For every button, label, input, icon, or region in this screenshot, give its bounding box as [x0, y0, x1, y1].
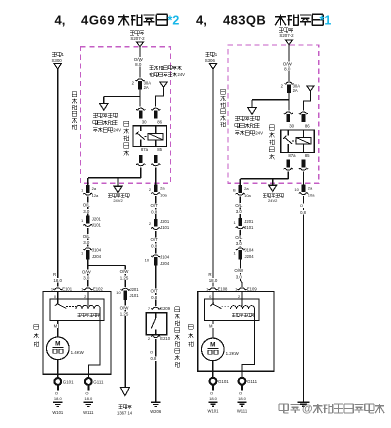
svg-text:M: M [55, 341, 60, 348]
svg-text:J204: J204 [245, 254, 255, 259]
connector E102 into starter [85, 288, 91, 290]
svg-text:85: 85 [157, 147, 162, 152]
svg-text:86: 86 [305, 123, 310, 128]
svg-text:1.25: 1.25 [120, 275, 129, 280]
svg-text:3.0: 3.0 [83, 209, 90, 214]
coil return wire inside box right [242, 309, 255, 377]
stub battery splice right [272, 179, 274, 185]
svg-text:0.8: 0.8 [151, 244, 158, 249]
watermark toutiao [279, 403, 288, 413]
svg-text:0.8: 0.8 [300, 210, 306, 215]
solenoid coils left [76, 305, 100, 309]
connector triangle to starter 14 [120, 388, 129, 396]
connector pin below junction right-col [154, 185, 158, 193]
connector E210 below switch [153, 335, 159, 337]
svg-text:8.0: 8.0 [284, 67, 291, 72]
wire splice to relay pin86 right [303, 91, 310, 111]
svg-text:J104: J104 [160, 254, 170, 259]
svg-text:10a: 10a [308, 193, 315, 198]
svg-text:10a: 10a [160, 193, 167, 198]
pin M label and wire to motor right [212, 320, 214, 338]
svg-text:*2: *2 [168, 13, 180, 27]
splice note text 3 lines (right) [235, 116, 239, 121]
J-column label O/W 1.25 [119, 269, 129, 274]
relay coil left [148, 133, 163, 140]
solder point label left S300 [52, 52, 56, 56]
starter motor circle right [202, 338, 225, 361]
svg-text:O: O [210, 390, 213, 395]
svg-text:O/T: O/T [151, 289, 159, 294]
pin M label and wire to motor [57, 320, 59, 337]
svg-text:J101: J101 [160, 225, 170, 230]
svg-text:S306: S306 [205, 58, 216, 63]
cable label R 18.0 [52, 272, 57, 277]
splice note text 3 lines (left) [93, 113, 97, 118]
svg-text:E210: E210 [160, 336, 170, 341]
solenoid coils right [231, 306, 255, 310]
terminal G111 right diagram [239, 378, 246, 385]
splice triangle multi-strand right [248, 108, 257, 115]
svg-text:W101: W101 [52, 410, 64, 415]
svg-text:G111: G111 [93, 379, 104, 384]
left drop wire from junction [87, 178, 89, 185]
wire to starter right [240, 260, 242, 287]
connector E109 into starter right [239, 288, 245, 290]
svg-text:J104: J104 [92, 247, 102, 252]
wire battery to fuse right [288, 45, 290, 81]
svg-text:O/T: O/T [151, 237, 159, 242]
ground W206 [151, 401, 160, 403]
motor to terminal wire [57, 360, 59, 379]
svg-text:S207-2: S207-2 [130, 36, 145, 41]
branch junction to J-column [88, 265, 126, 267]
svg-text:J101: J101 [92, 223, 102, 228]
svg-text:B: B [233, 187, 236, 192]
wire label O/L 3.0 lower [87, 228, 89, 247]
stub to battery splice triangle [117, 178, 119, 186]
svg-text:0.8: 0.8 [150, 356, 156, 361]
svg-text:4,: 4, [196, 12, 207, 27]
ground W101 right [208, 401, 217, 403]
svg-text:24V2: 24V2 [268, 198, 278, 203]
svg-text:18.0: 18.0 [54, 396, 63, 401]
ground stub right G101 [212, 385, 214, 391]
svg-text:18.0: 18.0 [209, 278, 218, 283]
svg-text:2a: 2a [308, 185, 313, 190]
svg-text:*1: *1 [320, 13, 332, 27]
ground W111 right [237, 401, 246, 403]
starter relay box right [281, 130, 315, 152]
battery positive note right [263, 194, 267, 198]
svg-text:M: M [209, 324, 213, 329]
svg-text:O: O [85, 391, 88, 396]
svg-text:O/L: O/L [235, 203, 243, 208]
solenoid box left [50, 299, 104, 321]
svg-text:3.0: 3.0 [236, 241, 243, 246]
right harness vertical label [221, 89, 226, 94]
wire and labels O 0.8 [302, 196, 304, 402]
inline connector J104/J204 right drop [237, 248, 243, 250]
svg-text:30: 30 [289, 123, 294, 128]
svg-text:R: R [208, 272, 211, 277]
connector triangle battery cable left [54, 63, 61, 69]
svg-text:O/W: O/W [82, 269, 92, 274]
wire splice to relay pin86 [156, 87, 164, 107]
svg-text:30: 30 [142, 119, 147, 124]
junction bus left [88, 177, 141, 179]
relay connector bottom-left [139, 155, 143, 163]
fuse EF connector right (30A) [286, 82, 292, 84]
wire label O/W 8.0 [133, 57, 143, 62]
ground bottom right [297, 401, 309, 403]
svg-text:@: @ [302, 403, 313, 415]
wire to starter pin2 and branch [87, 260, 89, 287]
svg-text:24V: 24V [113, 128, 121, 133]
svg-text:W101: W101 [208, 409, 220, 414]
coil tiny caption [78, 313, 81, 316]
svg-text:G111: G111 [247, 379, 258, 384]
switch column wire from relay85 [155, 167, 157, 184]
wire label O/L 3.0 lower right [239, 230, 241, 246]
connector E209 start switch [153, 307, 159, 309]
cable label R 18.0 right [207, 272, 212, 277]
wire label O/L 3.0 upper right [239, 197, 241, 218]
wire label O/T 0.8 2nd [155, 231, 157, 254]
svg-text:4,: 4, [55, 12, 66, 27]
wire label O/L 3.0 upper [87, 197, 89, 216]
svg-text:G101: G101 [63, 379, 74, 384]
wire switch to ground [155, 339, 157, 402]
wire to start switch [155, 265, 157, 306]
starter relay box left K1 [133, 126, 167, 147]
svg-text:1.2KW: 1.2KW [226, 351, 240, 356]
svg-text:2a: 2a [92, 186, 97, 191]
svg-text:18.0: 18.0 [238, 396, 247, 401]
svg-text:10: 10 [116, 290, 121, 295]
solenoid box right [205, 299, 259, 320]
inline connector J104/J204 left drop [85, 248, 91, 250]
battery label above right top connector [279, 28, 283, 32]
svg-text:O: O [300, 203, 303, 208]
svg-text:O: O [150, 349, 153, 354]
connector E101 into starter [55, 288, 61, 290]
svg-text:O: O [239, 390, 242, 395]
relay connector top-right right diagram [300, 112, 306, 114]
svg-text:E101: E101 [62, 287, 72, 292]
svg-text:2A: 2A [144, 85, 149, 90]
svg-text:E102: E102 [93, 287, 103, 292]
svg-text:W206: W206 [150, 409, 162, 414]
svg-text:1.4KW: 1.4KW [71, 350, 85, 355]
solenoid contact left [57, 292, 59, 304]
svg-text:2: 2 [238, 294, 240, 299]
svg-text:3.0: 3.0 [236, 274, 243, 279]
relay vertical label right [269, 125, 274, 130]
svg-text:J101: J101 [130, 293, 140, 298]
svg-text:10: 10 [294, 187, 299, 192]
fuse EF connector left (30A) [137, 79, 143, 81]
inline connector J104/J204 switch col [153, 255, 159, 257]
svg-text:18.0: 18.0 [53, 278, 62, 283]
splice triangle upper right (left diagram) [160, 82, 167, 87]
inline connector J201/J101 switch col [154, 219, 158, 227]
battery positive splice triangle below box (left) [114, 186, 122, 192]
svg-text:J204: J204 [160, 261, 170, 266]
connector pin below junction left [86, 185, 90, 193]
ground W111 [84, 401, 93, 403]
svg-text:J104: J104 [245, 247, 255, 252]
battery positive note [108, 194, 112, 198]
svg-text:10: 10 [145, 257, 150, 262]
svg-text:E108: E108 [218, 287, 228, 292]
inline connector J201/J101 mid [122, 288, 128, 290]
connector triangle battery cable right [209, 63, 216, 69]
wire battery to fuse left [139, 47, 141, 78]
svg-text:M: M [210, 342, 215, 349]
J-column lower label O/W 1.25 [124, 300, 126, 388]
relay connector bottom-right [154, 155, 158, 163]
relay connector bottom-left right [286, 160, 290, 168]
connector triangle battery feed left [136, 42, 143, 47]
svg-text:0.8: 0.8 [151, 210, 158, 215]
start switch contact [155, 313, 157, 318]
left harness dashed box (instrument panel harness) [81, 47, 171, 184]
svg-text:24V: 24V [255, 131, 263, 136]
relay contact left [140, 126, 142, 131]
battery cable wire tall left [57, 69, 59, 287]
terminal G101 right diagram [210, 378, 217, 385]
svg-text:O/W: O/W [120, 305, 130, 310]
switch vertical label (start switch) [175, 307, 180, 312]
svg-text:O/L: O/L [83, 203, 91, 208]
svg-text:O/L: O/L [235, 235, 243, 240]
svg-text:86: 86 [157, 119, 162, 124]
wire label O/W 3.0 [81, 270, 91, 275]
svg-text:R: R [53, 272, 56, 277]
starter box left [43, 292, 111, 375]
terminal G111 left [85, 378, 92, 385]
svg-text:O: O [55, 391, 58, 396]
svg-text:2A: 2A [293, 88, 298, 93]
wire relay to junction right [287, 172, 289, 179]
svg-text:24V: 24V [178, 72, 186, 77]
label under triangle 1367 14 [119, 405, 123, 409]
inline connector J201/J101 right drop [238, 218, 242, 226]
battery positive splice triangle below box right [269, 185, 277, 191]
svg-text:3.0: 3.0 [236, 209, 243, 214]
svg-text:0.8: 0.8 [151, 295, 158, 300]
inline connector J201/J101 left drop [86, 216, 90, 224]
relay dashed link right [292, 140, 296, 142]
wire fuse to relay pin30 [139, 90, 141, 107]
relay connector top-right pin 86 [153, 108, 159, 110]
start switch box [146, 313, 166, 335]
svg-text:87a: 87a [288, 153, 296, 158]
svg-text:2: 2 [84, 294, 86, 299]
starter vertical label right [188, 324, 193, 329]
svg-text:J204: J204 [92, 254, 102, 259]
wire label O/T 0.8 1st [155, 196, 157, 219]
relay connector top-left right diagram [285, 112, 291, 114]
svg-text:18.0: 18.0 [84, 396, 93, 401]
relay connector bottom-right right [302, 160, 306, 168]
connector E108 into starter right [210, 288, 216, 290]
svg-text:8.0: 8.0 [135, 62, 142, 67]
svg-text:J201: J201 [92, 216, 102, 221]
coil return wire inside box left [88, 309, 100, 377]
terminal G101 left [54, 378, 61, 385]
svg-text:M: M [54, 324, 58, 329]
svg-text:1367 14: 1367 14 [117, 410, 133, 415]
svg-text:O/W: O/W [120, 269, 130, 274]
J-column wire down [124, 266, 126, 287]
right long wire from relay85 to ground [302, 172, 304, 185]
starter vertical label left [34, 324, 39, 329]
left harness vertical label [72, 92, 77, 97]
relay coil right [296, 137, 311, 144]
ground stub G101 [57, 385, 59, 391]
right harness dashed box [228, 45, 319, 183]
svg-text:10a: 10a [244, 193, 251, 198]
svg-text:85: 85 [305, 153, 310, 158]
note text beside upper right triangle [149, 66, 153, 70]
svg-text:3.0: 3.0 [83, 240, 90, 245]
wire label O/W 8.0 right [282, 61, 292, 66]
splice triangle upper right (right diagram) [307, 86, 314, 91]
connector pin below junction right drop [238, 185, 242, 193]
svg-text:18.0: 18.0 [209, 396, 218, 401]
solenoid dashed link right [222, 306, 231, 308]
starter box right [198, 292, 274, 372]
solenoid dashed link left [66, 306, 76, 308]
ground stub right G111 [241, 385, 243, 391]
svg-text:3.0: 3.0 [83, 276, 90, 281]
starter motor circle left [47, 337, 70, 360]
svg-text:24V2: 24V2 [113, 198, 123, 203]
battery cable wire tall right [212, 69, 214, 287]
wire fuse to relay right [288, 93, 290, 111]
svg-text:4G69: 4G69 [81, 12, 115, 27]
svg-text:O/W: O/W [234, 268, 244, 273]
connector triangle battery feed right [285, 40, 292, 45]
svg-text:J201: J201 [130, 287, 140, 292]
motor to terminal wire right [212, 361, 214, 378]
svg-text:E109: E109 [247, 287, 257, 292]
coil tiny caption right [232, 313, 235, 316]
ground W101 [53, 401, 62, 403]
relay connector top-left pin 30 [138, 108, 144, 110]
branch wire to splice triangle right [252, 99, 289, 101]
svg-text:S300: S300 [52, 58, 63, 63]
junction bus right [240, 178, 288, 180]
svg-text:483QB: 483QB [223, 12, 266, 27]
svg-text:12a: 12a [92, 193, 99, 198]
svg-text:G101: G101 [218, 379, 229, 384]
svg-text:W111: W111 [83, 410, 94, 415]
svg-text:J201: J201 [244, 219, 254, 224]
svg-text:E209: E209 [160, 306, 170, 311]
svg-text:2a: 2a [160, 185, 165, 190]
relay contact right diagram [287, 130, 289, 135]
svg-text:2a: 2a [244, 186, 249, 191]
splice triangle multi-strand to battery + (left) [100, 103, 109, 110]
relay vertical label left [124, 121, 129, 126]
svg-text:1.25: 1.25 [120, 312, 129, 317]
wire relay87 to junction [140, 167, 142, 178]
svg-text:J101: J101 [244, 225, 254, 230]
solder point label right S306 [205, 52, 209, 56]
battery label above left top connector [130, 31, 134, 35]
right drop wire from junction [239, 179, 241, 185]
svg-text:87a: 87a [141, 147, 149, 152]
solenoid contact right [212, 292, 214, 305]
ground stub G111 [87, 385, 89, 391]
svg-text:S207-2: S207-2 [279, 33, 294, 38]
svg-text:O/L: O/L [83, 234, 91, 239]
branch wire to splice triangle [104, 95, 140, 97]
svg-text:W111: W111 [237, 409, 248, 414]
svg-text:J201: J201 [160, 219, 170, 224]
svg-text:O/T: O/T [151, 203, 159, 208]
relay contact-coil dashed link [145, 135, 149, 137]
